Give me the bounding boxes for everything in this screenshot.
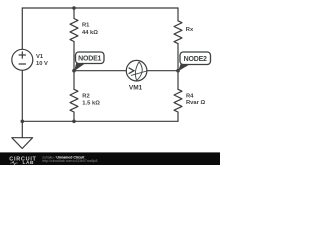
svg-text:Rx: Rx — [186, 27, 194, 33]
svg-text:NODE1: NODE1 — [78, 55, 101, 62]
svg-text:http://circuitlab.com/c433b07m: http://circuitlab.com/c433b07ma5p8 — [42, 159, 97, 163]
svg-text:1.5 kΩ: 1.5 kΩ — [82, 101, 100, 107]
svg-text:Rvar Ω: Rvar Ω — [186, 100, 206, 106]
svg-text:10 V: 10 V — [36, 61, 48, 67]
svg-text:44 kΩ: 44 kΩ — [82, 30, 98, 36]
svg-text:LAB: LAB — [23, 160, 35, 165]
svg-text:VM1: VM1 — [129, 85, 143, 92]
svg-text:V1: V1 — [36, 54, 44, 60]
svg-text:R2: R2 — [82, 93, 89, 99]
svg-text:R1: R1 — [82, 23, 90, 29]
svg-text:R4: R4 — [186, 93, 194, 99]
svg-text:NODE2: NODE2 — [184, 56, 207, 63]
